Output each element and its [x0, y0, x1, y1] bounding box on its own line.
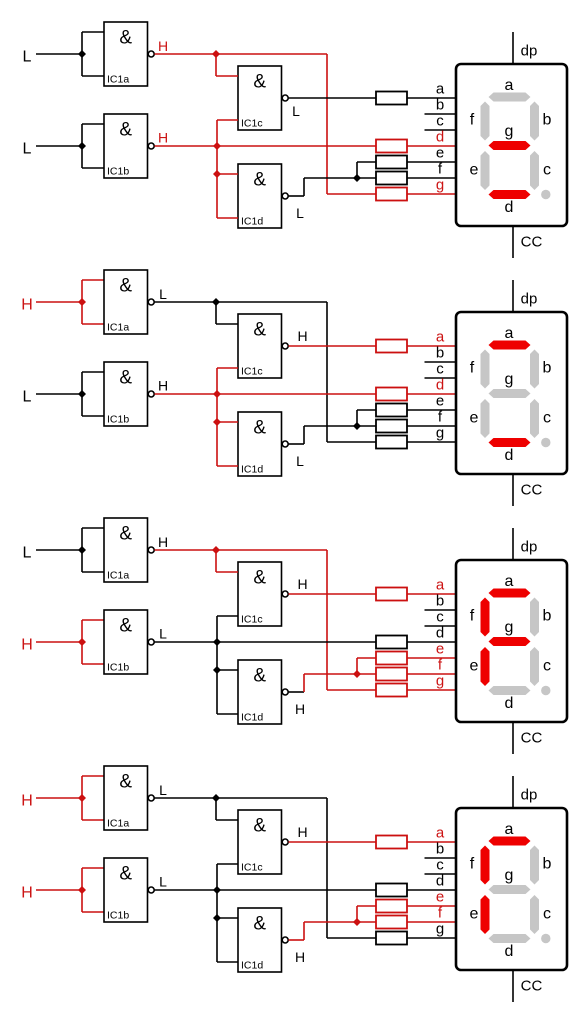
- svg-text:IC1d: IC1d: [241, 464, 263, 476]
- svg-text:e: e: [470, 410, 479, 427]
- svg-text:c: c: [436, 609, 444, 626]
- resistor Ra: [376, 92, 407, 105]
- svg-text:L: L: [159, 626, 167, 642]
- svg-text:L: L: [296, 205, 304, 221]
- wire to resistor Rf: [357, 425, 376, 427]
- pin dp wire: [512, 528, 514, 560]
- nand gate IC1b (stage 4): [104, 858, 148, 922]
- segment b of LD2: [530, 350, 539, 389]
- svg-text:&: &: [253, 568, 266, 589]
- junction IC1d input fork: [213, 914, 221, 922]
- wire stub display pin b: [425, 857, 458, 859]
- svg-text:a: a: [436, 329, 445, 346]
- wire IC1d output stub: [289, 443, 305, 445]
- segment f of LD3: [481, 598, 490, 637]
- svg-text:dp: dp: [521, 539, 538, 556]
- svg-text:g: g: [436, 425, 444, 442]
- svg-text:c: c: [543, 906, 551, 923]
- nand gate IC1d (stage 2): [238, 412, 282, 476]
- svg-text:L: L: [159, 874, 167, 890]
- segment c of LD1: [530, 151, 539, 190]
- svg-text:IC1a: IC1a: [107, 570, 129, 582]
- wire resistor Rd to display pin d: [407, 393, 457, 395]
- wire junction to IC1c input 1: [215, 302, 217, 324]
- svg-text:L: L: [159, 286, 167, 302]
- svg-text:&: &: [253, 72, 266, 93]
- wire to resistor Rf: [357, 921, 376, 923]
- svg-text:&: &: [119, 524, 132, 545]
- wire IC1a output to junction: [155, 53, 217, 55]
- segment g of LD2: [489, 389, 531, 398]
- svg-text:g: g: [505, 867, 514, 884]
- junction IC1b output: [213, 390, 221, 398]
- resistor Rg: [376, 436, 407, 449]
- nand gate IC1b (stage 1): [104, 114, 148, 178]
- svg-text:CC: CC: [521, 482, 543, 499]
- svg-text:H: H: [158, 378, 168, 394]
- svg-text:g: g: [436, 673, 444, 690]
- pin dp wire: [512, 776, 514, 808]
- nand gate IC1d (stage 1): [238, 164, 282, 228]
- wire IC1a output to junction: [155, 301, 217, 303]
- inverter bubble IC1a output: [148, 795, 154, 801]
- svg-text:a: a: [436, 81, 445, 98]
- svg-text:&: &: [253, 320, 266, 341]
- svg-text:g: g: [436, 921, 444, 938]
- segment c of LD2: [530, 399, 539, 438]
- junction IN1 fork: [78, 794, 86, 802]
- wire IN2 to IC1b inputs: [36, 393, 82, 395]
- svg-text:a: a: [505, 573, 514, 590]
- segment f of LD2: [481, 350, 490, 389]
- svg-text:b: b: [436, 593, 444, 610]
- resistor Re: [376, 156, 407, 169]
- segment d of LD4: [489, 934, 531, 943]
- wire IC1d output up to segment f line: [303, 426, 305, 444]
- svg-text:IC1b: IC1b: [107, 662, 129, 674]
- svg-text:a: a: [505, 325, 514, 342]
- svg-text:L: L: [23, 141, 32, 158]
- inverter bubble IC1d output: [282, 193, 288, 199]
- svg-text:b: b: [436, 97, 444, 114]
- junction IN1 fork: [78, 546, 86, 554]
- segment d of LD2: [489, 438, 531, 447]
- junction IC1a output: [212, 546, 220, 554]
- inverter bubble IC1c output: [282, 343, 288, 349]
- svg-text:H: H: [158, 38, 168, 54]
- wire IC1d output stub: [289, 195, 305, 197]
- svg-text:H: H: [21, 637, 33, 654]
- wire junction up to IC1c input 2: [216, 616, 218, 642]
- svg-text:c: c: [543, 162, 551, 179]
- wire stub display pin b: [425, 113, 458, 115]
- svg-text:f: f: [470, 608, 475, 625]
- svg-text:e: e: [436, 393, 444, 410]
- svg-text:c: c: [543, 658, 551, 675]
- wire junction up to IC1c input 2: [216, 864, 218, 890]
- svg-text:H: H: [297, 824, 307, 840]
- segment g of LD4: [489, 885, 531, 894]
- wire resistor Ra to display pin a: [407, 97, 457, 99]
- segment dp dot of LD1: [541, 190, 550, 199]
- wire junction up to IC1c input 2: [216, 368, 218, 394]
- svg-text:d: d: [436, 129, 444, 146]
- wire IC1a output to junction: [155, 797, 217, 799]
- nand gate IC1a (stage 2): [104, 270, 148, 334]
- svg-text:H: H: [158, 534, 168, 550]
- svg-text:g: g: [436, 177, 444, 194]
- wire IC1a output across to segment g feed: [216, 301, 327, 303]
- svg-text:IC1d: IC1d: [241, 960, 263, 972]
- segment dp dot of LD4: [541, 934, 550, 943]
- svg-text:IC1d: IC1d: [241, 712, 263, 724]
- segment dp dot of LD3: [541, 686, 550, 695]
- svg-text:d: d: [505, 695, 514, 712]
- junction IC1a output: [212, 50, 220, 58]
- svg-text:a: a: [505, 77, 514, 94]
- svg-text:d: d: [436, 625, 444, 642]
- svg-text:c: c: [436, 361, 444, 378]
- wire resistor Rg to display pin g: [407, 689, 457, 691]
- nand gate IC1a (stage 1): [104, 22, 148, 86]
- wire IC1d output stub: [289, 691, 305, 693]
- wire IC1a output to junction: [155, 549, 217, 551]
- svg-text:b: b: [543, 608, 552, 625]
- segment c of LD3: [530, 647, 539, 686]
- svg-text:dp: dp: [521, 291, 538, 308]
- segment g of LD1: [489, 141, 531, 150]
- 7-segment display LD4 body: [456, 808, 567, 970]
- svg-text:b: b: [543, 856, 552, 873]
- junction IC1a output: [212, 298, 220, 306]
- pin dp wire: [512, 280, 514, 312]
- wire IC1b output to segment d feed: [155, 393, 377, 395]
- svg-text:f: f: [470, 856, 475, 873]
- nand gate IC1b (stage 3): [104, 610, 148, 674]
- svg-text:g: g: [505, 371, 514, 388]
- svg-text:e: e: [436, 145, 444, 162]
- segment b of LD1: [530, 102, 539, 141]
- wire junction down to IC1d input 1: [216, 642, 218, 670]
- resistor Rf: [376, 172, 407, 185]
- wire stub display pin c: [425, 129, 458, 131]
- svg-text:CC: CC: [521, 978, 543, 995]
- segment e of LD2: [481, 399, 490, 438]
- wire resistor Rg to display pin g: [407, 441, 457, 443]
- wire resistor Rd to display pin d: [407, 145, 457, 147]
- wire IN1 to IC1a inputs: [36, 53, 82, 55]
- svg-text:f: f: [470, 112, 475, 129]
- svg-text:b: b: [543, 360, 552, 377]
- wire junction to IC1c input 1: [215, 550, 217, 572]
- junction IN1 fork: [78, 298, 86, 306]
- resistor Rg: [376, 188, 407, 201]
- resistor Ra: [376, 588, 407, 601]
- pin CC wire: [512, 474, 514, 506]
- segment f of LD4: [481, 846, 490, 885]
- segment a of LD4: [489, 837, 531, 846]
- svg-text:&: &: [253, 816, 266, 837]
- junction e/f fork: [353, 422, 361, 430]
- svg-text:g: g: [505, 619, 514, 636]
- inverter bubble IC1b output: [148, 887, 154, 893]
- wire IC1c output to resistor Ra: [289, 345, 377, 347]
- wire resistor Rf to display pin f: [407, 921, 457, 923]
- svg-text:&: &: [253, 418, 266, 439]
- wire IN1 to IC1a inputs: [36, 549, 82, 551]
- inverter bubble IC1a output: [148, 547, 154, 553]
- wire resistor Rf to display pin f: [407, 673, 457, 675]
- wire resistor Rd to display pin d: [407, 641, 457, 643]
- svg-text:b: b: [543, 112, 552, 129]
- svg-text:dp: dp: [521, 787, 538, 804]
- junction IC1d input fork: [213, 418, 221, 426]
- nand gate IC1c (stage 1): [238, 66, 282, 130]
- resistor Re: [376, 652, 407, 665]
- wire branch up to segment e line: [356, 162, 358, 178]
- svg-text:H: H: [21, 885, 33, 902]
- wire resistor Rf to display pin f: [407, 425, 457, 427]
- svg-text:H: H: [297, 576, 307, 592]
- junction e/f fork: [353, 174, 361, 182]
- svg-text:H: H: [158, 130, 168, 146]
- segment b of LD3: [530, 598, 539, 637]
- svg-text:&: &: [253, 914, 266, 935]
- svg-text:a: a: [436, 825, 445, 842]
- svg-text:c: c: [543, 410, 551, 427]
- svg-text:IC1b: IC1b: [107, 910, 129, 922]
- junction IN2 fork: [78, 886, 86, 894]
- resistor Rd: [376, 388, 407, 401]
- wire down to IC1d input 2: [216, 670, 218, 714]
- svg-text:CC: CC: [521, 234, 543, 251]
- junction IN2 fork: [78, 142, 86, 150]
- svg-text:L: L: [23, 389, 32, 406]
- segment e of LD4: [481, 895, 490, 934]
- wire IC1b output to segment d feed: [155, 145, 377, 147]
- nand gate IC1c (stage 4): [238, 810, 282, 874]
- inverter bubble IC1b output: [148, 639, 154, 645]
- svg-text:dp: dp: [521, 43, 538, 60]
- wire IC1a output across to segment g feed: [216, 549, 327, 551]
- wire resistor Ra to display pin a: [407, 345, 457, 347]
- junction IC1b output: [213, 638, 221, 646]
- svg-text:IC1a: IC1a: [107, 74, 129, 86]
- wire IC1c output to resistor Ra: [289, 593, 377, 595]
- wire IC1d output up to segment f line: [303, 922, 305, 940]
- svg-text:b: b: [436, 841, 444, 858]
- resistor Rf: [376, 420, 407, 433]
- svg-text:&: &: [119, 276, 132, 297]
- junction IC1d input fork: [213, 170, 221, 178]
- nand gate IC1c (stage 2): [238, 314, 282, 378]
- svg-text:e: e: [470, 162, 479, 179]
- resistor Rd: [376, 884, 407, 897]
- nand gate IC1c (stage 3): [238, 562, 282, 626]
- segment d of LD1: [489, 190, 531, 199]
- svg-text:IC1c: IC1c: [241, 366, 263, 378]
- svg-text:CC: CC: [521, 730, 543, 747]
- svg-text:L: L: [23, 545, 32, 562]
- svg-text:b: b: [436, 345, 444, 362]
- svg-text:H: H: [21, 297, 33, 314]
- segment e of LD3: [481, 647, 490, 686]
- wire IC1c output to resistor Ra: [289, 97, 377, 99]
- pin CC wire: [512, 722, 514, 754]
- segment c of LD4: [530, 895, 539, 934]
- svg-text:IC1c: IC1c: [241, 862, 263, 874]
- inverter bubble IC1a output: [148, 51, 154, 57]
- svg-text:L: L: [292, 103, 300, 119]
- segment dp dot of LD2: [541, 438, 550, 447]
- svg-text:IC1b: IC1b: [107, 414, 129, 426]
- wire stub display pin b: [425, 609, 458, 611]
- svg-text:c: c: [436, 113, 444, 130]
- svg-text:c: c: [436, 857, 444, 874]
- inverter bubble IC1c output: [282, 839, 288, 845]
- resistor Rf: [376, 668, 407, 681]
- inverter bubble IC1b output: [148, 391, 154, 397]
- svg-text:&: &: [119, 120, 132, 141]
- svg-text:e: e: [470, 906, 479, 923]
- wire resistor Rd to display pin d: [407, 889, 457, 891]
- nand gate IC1d (stage 3): [238, 660, 282, 724]
- svg-text:f: f: [470, 360, 475, 377]
- junction IN2 fork: [78, 390, 86, 398]
- resistor Ra: [376, 340, 407, 353]
- wire IC1a output across to segment g feed: [216, 797, 327, 799]
- svg-text:IC1a: IC1a: [107, 818, 129, 830]
- resistor Rf: [376, 916, 407, 929]
- svg-text:IC1d: IC1d: [241, 216, 263, 228]
- wire resistor Rf to display pin f: [407, 177, 457, 179]
- junction e/f fork: [353, 670, 361, 678]
- segment a of LD2: [489, 341, 531, 350]
- svg-text:L: L: [159, 782, 167, 798]
- pin CC wire: [512, 226, 514, 258]
- 7-segment display LD2 body: [456, 312, 567, 474]
- resistor Rg: [376, 684, 407, 697]
- wire resistor Re to display pin e: [407, 161, 457, 163]
- svg-text:IC1c: IC1c: [241, 118, 263, 130]
- svg-text:&: &: [119, 28, 132, 49]
- segment g of LD3: [489, 637, 531, 646]
- svg-text:e: e: [470, 658, 479, 675]
- svg-text:e: e: [436, 889, 444, 906]
- pin CC wire: [512, 970, 514, 1002]
- wire IC1c output to resistor Ra: [289, 841, 377, 843]
- nand gate IC1d (stage 4): [238, 908, 282, 972]
- resistor Re: [376, 900, 407, 913]
- wire resistor Re to display pin e: [407, 409, 457, 411]
- segment e of LD1: [481, 151, 490, 190]
- 7-segment display LD3 body: [456, 560, 567, 722]
- 7-segment display LD1 body: [456, 64, 567, 226]
- wire branch up to segment e line: [356, 658, 358, 674]
- wire down to IC1d input 2: [216, 918, 218, 962]
- wire resistor Ra to display pin a: [407, 593, 457, 595]
- svg-text:&: &: [119, 864, 132, 885]
- wire resistor Rg to display pin g: [407, 937, 457, 939]
- inverter bubble IC1c output: [282, 591, 288, 597]
- svg-text:&: &: [119, 772, 132, 793]
- wire junction up to IC1c input 2: [216, 120, 218, 146]
- nand gate IC1b (stage 2): [104, 362, 148, 426]
- svg-text:L: L: [23, 49, 32, 66]
- segment a of LD1: [489, 93, 531, 102]
- segment a of LD3: [489, 589, 531, 598]
- inverter bubble IC1d output: [282, 937, 288, 943]
- nand gate IC1a (stage 3): [104, 518, 148, 582]
- wire junction down to IC1d input 1: [216, 394, 218, 422]
- svg-text:H: H: [295, 701, 305, 717]
- wire junction to IC1c input 1: [215, 54, 217, 76]
- inverter bubble IC1c output: [282, 95, 288, 101]
- nand gate IC1a (stage 4): [104, 766, 148, 830]
- wire IC1d output up to segment f line: [303, 178, 305, 196]
- svg-text:IC1c: IC1c: [241, 614, 263, 626]
- resistor Re: [376, 404, 407, 417]
- wire junction down to IC1d input 1: [216, 146, 218, 174]
- pin dp wire: [512, 32, 514, 64]
- svg-text:d: d: [505, 943, 514, 960]
- wire IC1b output to segment d feed: [155, 641, 377, 643]
- segment d of LD3: [489, 686, 531, 695]
- junction e/f fork: [353, 918, 361, 926]
- resistor Rd: [376, 636, 407, 649]
- wire stub display pin c: [425, 873, 458, 875]
- wire IN1 to IC1a inputs: [36, 301, 82, 303]
- wire resistor Re to display pin e: [407, 657, 457, 659]
- resistor Rd: [376, 140, 407, 153]
- junction IC1b output: [213, 886, 221, 894]
- wire IN1 to IC1a inputs: [36, 797, 82, 799]
- segment f of LD1: [481, 102, 490, 141]
- svg-text:d: d: [505, 199, 514, 216]
- svg-text:&: &: [119, 616, 132, 637]
- wire junction down to IC1d input 1: [216, 890, 218, 918]
- svg-text:&: &: [119, 368, 132, 389]
- svg-text:d: d: [436, 377, 444, 394]
- wire IC1d output stub: [289, 939, 305, 941]
- wire resistor Re to display pin e: [407, 905, 457, 907]
- wire junction to IC1c input 1: [215, 798, 217, 820]
- junction IC1d input fork: [213, 666, 221, 674]
- svg-text:H: H: [295, 949, 305, 965]
- inverter bubble IC1a output: [148, 299, 154, 305]
- wire to resistor Rf: [357, 177, 376, 179]
- wire down to IC1d input 2: [216, 422, 218, 466]
- inverter bubble IC1d output: [282, 689, 288, 695]
- wire branch up to segment e line: [356, 410, 358, 426]
- junction IN1 fork: [78, 50, 86, 58]
- svg-text:e: e: [436, 641, 444, 658]
- svg-text:a: a: [436, 577, 445, 594]
- junction IC1a output: [212, 794, 220, 802]
- wire IN2 to IC1b inputs: [36, 145, 82, 147]
- svg-text:d: d: [505, 447, 514, 464]
- wire stub display pin b: [425, 361, 458, 363]
- wire IN2 to IC1b inputs: [36, 641, 82, 643]
- wire IC1b output to segment d feed: [155, 889, 377, 891]
- inverter bubble IC1d output: [282, 441, 288, 447]
- svg-text:IC1a: IC1a: [107, 322, 129, 334]
- wire IN2 to IC1b inputs: [36, 889, 82, 891]
- wire IC1a output across to segment g feed: [216, 53, 327, 55]
- junction IC1b output: [213, 142, 221, 150]
- wire down to IC1d input 2: [216, 174, 218, 218]
- resistor Rg: [376, 932, 407, 945]
